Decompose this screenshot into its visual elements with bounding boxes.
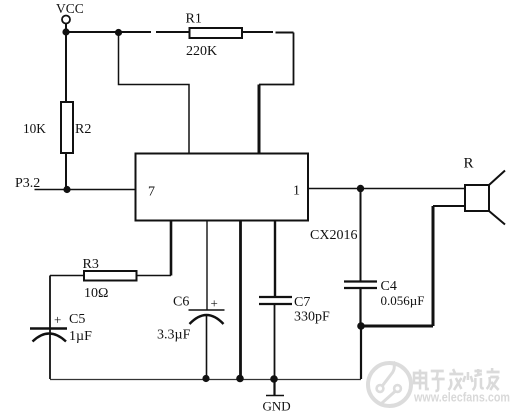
svg-text:C4: C4	[381, 279, 397, 294]
svg-text:GND: GND	[263, 399, 291, 414]
svg-text:1µF: 1µF	[69, 329, 92, 344]
svg-text:7: 7	[148, 185, 155, 200]
svg-text:+: +	[211, 296, 218, 311]
svg-text:10Ω: 10Ω	[84, 286, 108, 301]
svg-text:C7: C7	[294, 295, 310, 310]
svg-text:P3.2: P3.2	[15, 176, 40, 191]
svg-text:0.056µF: 0.056µF	[381, 293, 425, 308]
svg-text:R: R	[464, 156, 474, 172]
svg-text:220K: 220K	[186, 44, 217, 59]
svg-text:330pF: 330pF	[294, 310, 330, 325]
svg-text:R1: R1	[186, 12, 202, 27]
svg-text:C6: C6	[173, 295, 189, 310]
svg-text:R3: R3	[83, 257, 99, 272]
svg-text:C5: C5	[69, 312, 85, 327]
svg-text:CX2016: CX2016	[310, 228, 357, 243]
svg-text:www.elecfans.com: www.elecfans.com	[413, 391, 510, 405]
svg-text:1: 1	[293, 184, 300, 199]
svg-text:+: +	[54, 312, 61, 327]
svg-text:10K: 10K	[23, 121, 46, 136]
svg-text:R2: R2	[75, 122, 91, 137]
svg-text:VCC: VCC	[56, 1, 84, 16]
svg-text:3.3µF: 3.3µF	[157, 328, 191, 343]
